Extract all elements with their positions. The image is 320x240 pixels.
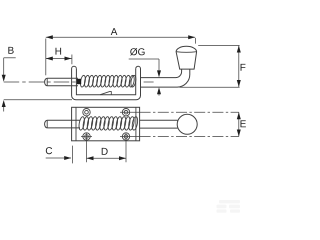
knob (top view) bbox=[176, 46, 197, 69]
crosshair through top-right hole bbox=[120, 111, 140, 113]
centerline dash inside rod (top view) bbox=[144, 81, 154, 83]
U-bracket (top view) bbox=[72, 66, 141, 100]
dimension H bbox=[46, 55, 72, 65]
stop collar (black square, top view) bbox=[77, 79, 82, 84]
rod with bend (top view) bbox=[141, 69, 190, 87]
tab triangle on base (top view) bbox=[100, 92, 111, 95]
plate flange line right bbox=[135, 107, 137, 141]
dimension ØG bbox=[129, 59, 159, 96]
dimension D bbox=[87, 133, 127, 162]
plate flange line left bbox=[75, 107, 77, 141]
dimension F bbox=[180, 46, 240, 88]
dimension E bbox=[238, 112, 240, 136]
crosshair through bottom-right hole bbox=[120, 136, 140, 138]
screw hole top-left bbox=[83, 109, 90, 116]
base plate (bottom view) bbox=[72, 107, 140, 141]
dimension B bbox=[4, 58, 72, 112]
watermark logo (faint, bottom right) bbox=[217, 200, 241, 213]
screw hole bottom-right bbox=[122, 133, 129, 140]
centerline extension top (dash-dot to E) bbox=[140, 111, 239, 113]
screw hole bottom-left bbox=[83, 133, 90, 140]
centerline extension bottom (dash-dot to E) bbox=[140, 136, 239, 138]
spring (top view) bbox=[80, 75, 137, 87]
dimension C bbox=[46, 146, 73, 164]
centerline (top view bolt axis) bbox=[4, 81, 76, 83]
screw hole top-right bbox=[122, 109, 129, 116]
spring (bottom view) bbox=[78, 116, 138, 130]
dimension A bbox=[46, 37, 196, 75]
pin (top view) bbox=[45, 78, 78, 86]
rod to ring (bottom view) bbox=[140, 120, 178, 128]
pin (bottom view) bbox=[45, 120, 80, 128]
crosshair through bottom-left hole bbox=[81, 136, 92, 138]
ring handle (bottom view) bbox=[177, 114, 197, 134]
